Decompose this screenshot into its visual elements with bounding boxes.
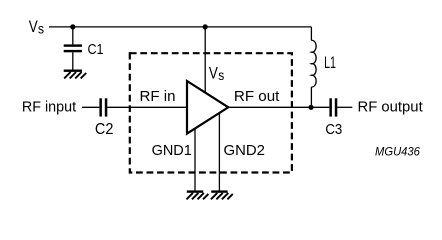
svg-text:RF output: RF output [358, 100, 423, 116]
svg-text:C2: C2 [95, 121, 114, 138]
wire C3 to RF output [337, 106, 352, 108]
wire VS supply rail [49, 26, 311, 28]
wire GND1 from triangle to ground [194, 129, 196, 190]
op-amp U1 amplifier triangle [187, 81, 228, 134]
wire from C2 to amplifier input [107, 106, 187, 108]
dashed amplifier module box [130, 53, 292, 172]
svg-text:s: s [38, 21, 44, 37]
svg-text:C3: C3 [325, 121, 342, 138]
wire from rail down to C1 [72, 27, 74, 45]
svg-text:RF out: RF out [234, 89, 280, 105]
svg-text:GND2: GND2 [224, 143, 265, 159]
node junction dot at VS branch [203, 24, 208, 29]
svg-text:RF in: RF in [140, 89, 176, 105]
capacitor C3 [329, 98, 337, 116]
node junction dot at output [308, 105, 313, 110]
svg-text:V: V [29, 18, 38, 36]
wire from RF input to C2 [82, 106, 99, 108]
node VS label top-left [29, 18, 44, 37]
svg-text:V: V [209, 64, 218, 82]
wire amplifier output to C3 [228, 106, 329, 108]
node junction dot at C1 [70, 24, 75, 29]
svg-text:C1: C1 [88, 41, 104, 58]
node VS label inside box [209, 64, 224, 83]
wire VS branch down into box [204, 27, 206, 92]
ground under C1 [64, 70, 86, 79]
svg-text:RF input: RF input [22, 99, 76, 115]
wire rail corner down to L1 [310, 27, 312, 41]
capacitor C2 [99, 98, 107, 116]
svg-text:GND1: GND1 [152, 143, 192, 159]
ground GND2 symbol [211, 190, 233, 199]
wire GND2 from triangle to ground [218, 113, 220, 190]
wire from C1 down to ground [72, 52, 74, 69]
ground GND1 symbol [187, 190, 209, 199]
capacitor C1 [64, 44, 82, 52]
svg-text:s: s [218, 67, 224, 83]
wire L1 down to output node [310, 87, 312, 107]
inductor L1 coil [311, 40, 316, 87]
svg-text:L1: L1 [324, 54, 336, 72]
svg-text:MGU436: MGU436 [375, 145, 420, 159]
